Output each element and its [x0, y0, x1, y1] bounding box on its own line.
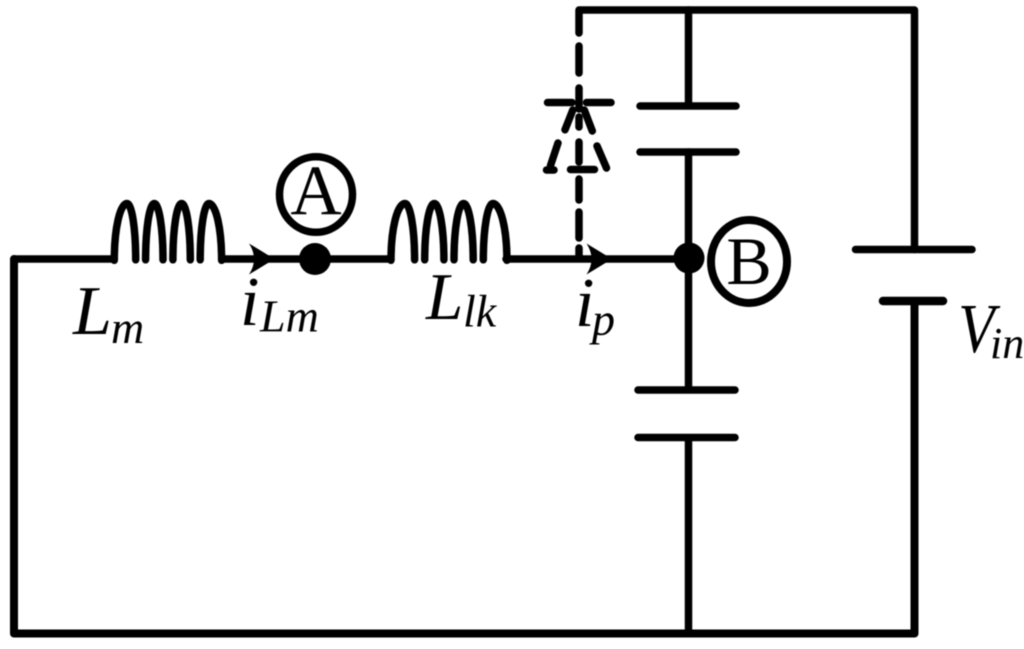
svg-text:p: p [589, 294, 615, 345]
svg-text:Lm: Lm [259, 291, 319, 342]
svg-text:i: i [240, 264, 259, 341]
svg-text:in: in [990, 319, 1024, 368]
svg-text:B: B [726, 223, 771, 299]
svg-text:lk: lk [463, 286, 498, 337]
svg-text:A: A [290, 152, 341, 230]
svg-text:L: L [425, 260, 463, 334]
svg-text:m: m [111, 302, 144, 353]
svg-text:L: L [72, 273, 112, 350]
